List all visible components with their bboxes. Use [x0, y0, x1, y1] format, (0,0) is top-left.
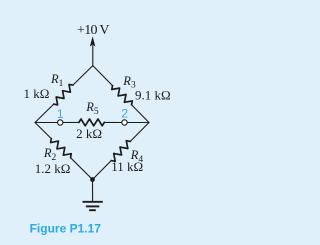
- wire node 2 stub: [127, 122, 149, 124]
- wire R3 lower lead: [132, 105, 150, 123]
- svg-text:1 kΩ: 1 kΩ: [24, 86, 50, 101]
- wire R5 left lead: [63, 121, 79, 123]
- svg-text:11 kΩ: 11 kΩ: [111, 159, 143, 174]
- resistor R5: [79, 119, 104, 126]
- wire R1 upper lead: [73, 66, 93, 86]
- wire supply lead: [92, 46, 94, 66]
- resistor R1: [54, 84, 73, 105]
- svg-text:9.1 kΩ: 9.1 kΩ: [135, 88, 171, 103]
- wire R2 lower lead: [71, 158, 93, 180]
- resistor R2: [51, 139, 72, 158]
- arrowhead of +10 V supply: [90, 36, 96, 46]
- svg-text:+10 V: +10 V: [77, 23, 109, 38]
- wire R5 right lead: [104, 121, 122, 123]
- terminal circle node 2: [122, 120, 127, 125]
- wire R4 upper lead: [130, 123, 149, 142]
- terminal circle node 1: [58, 120, 63, 125]
- svg-text:1: 1: [57, 107, 64, 121]
- svg-text:Figure P1.17: Figure P1.17: [30, 222, 102, 236]
- wire R3 upper lead: [93, 66, 113, 86]
- svg-text:2 kΩ: 2 kΩ: [76, 126, 102, 141]
- ground: [83, 202, 103, 210]
- wire R4 lower lead: [93, 161, 112, 180]
- svg-text:2: 2: [121, 107, 128, 121]
- resistor R4: [111, 141, 130, 162]
- resistor R3: [112, 86, 133, 105]
- wire R1 lower lead: [35, 104, 54, 122]
- wire ground lead: [92, 180, 94, 202]
- wire R2 upper lead: [35, 123, 51, 139]
- junction dot at bottom node: [90, 177, 95, 182]
- svg-text:1.2 kΩ: 1.2 kΩ: [35, 161, 71, 176]
- wire node 1 stub: [35, 122, 58, 124]
